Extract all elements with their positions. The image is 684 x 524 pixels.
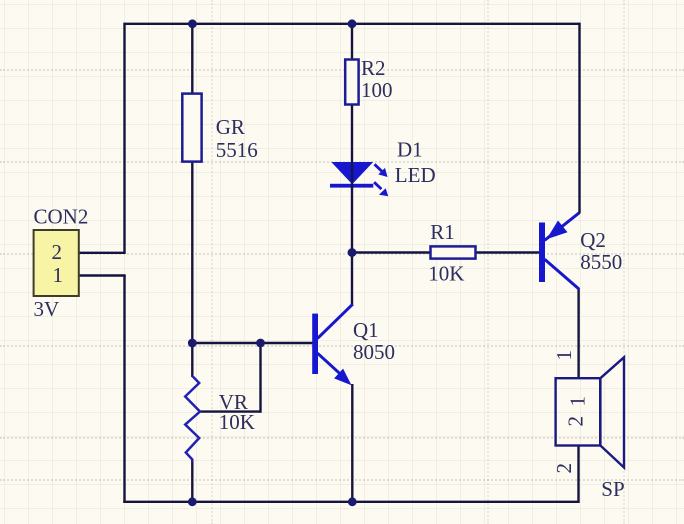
wire speaker pin 2 to bottom rail: [577, 445, 579, 503]
wire Q2 collector to speaker pin 1: [577, 289, 579, 379]
transistor Q2 emitter arrowhead: [547, 221, 568, 240]
svg-text:10K: 10K: [219, 410, 255, 434]
junction node bottom rail / VR: [188, 497, 197, 506]
wire through LED: [351, 162, 353, 188]
LED D1 light arrow 2 head: [379, 188, 388, 196]
transistor Q2 collector diagonal: [545, 259, 580, 289]
transistor Q1 collector diagonal: [318, 304, 353, 338]
speaker SP horn: [600, 357, 624, 467]
svg-text:2: 2: [552, 463, 576, 474]
svg-text:1: 1: [552, 350, 576, 361]
junction node top rail / R2: [348, 19, 357, 28]
svg-text:1: 1: [53, 263, 64, 287]
wire R2 top: [351, 24, 353, 61]
transistor Q2 emitter diagonal: [545, 213, 580, 241]
wire base line y343: [192, 342, 312, 344]
wire GR column bottom: [191, 161, 193, 343]
svg-text:2: 2: [52, 240, 63, 264]
wire top rail: [125, 23, 580, 25]
svg-text:D1: D1: [397, 137, 423, 161]
svg-text:10K: 10K: [428, 262, 464, 286]
svg-text:Q2: Q2: [580, 228, 606, 252]
wire VR bottom: [191, 460, 193, 502]
svg-text:1: 1: [566, 396, 590, 407]
LED D1 triangle: [331, 162, 373, 184]
svg-text:CON2: CON2: [34, 205, 89, 229]
junction node bottom rail / Q1 emitter: [348, 497, 357, 506]
junction node top rail / GR: [188, 19, 197, 28]
wire VR wiper vertical: [259, 343, 261, 413]
LED D1 light arrow 1 shaft: [375, 164, 382, 171]
wire VR top feed: [191, 343, 193, 377]
wire LED to node: [351, 187, 353, 306]
svg-text:R1: R1: [430, 220, 455, 244]
svg-text:100: 100: [361, 78, 393, 102]
svg-text:SP: SP: [601, 477, 624, 501]
svg-text:LED: LED: [395, 163, 436, 187]
wire R2 to LED: [351, 104, 353, 163]
wire R1 to Q2 base: [476, 251, 540, 253]
resistor R2 body: [345, 60, 358, 105]
svg-text:8050: 8050: [353, 340, 395, 364]
transistor Q1 emitter arrowhead: [334, 369, 351, 386]
wire Q1 emitter down: [351, 384, 353, 502]
wire left rail upper (top rail to CON2 pin 2): [123, 23, 125, 253]
resistor R1 body: [431, 246, 476, 258]
speaker SP body rectangle: [556, 378, 601, 445]
wire VR wiper horizontal: [200, 410, 261, 412]
junction node GR / base line: [188, 339, 197, 348]
junction node LED / R1: [348, 248, 357, 257]
wire CON2 pin 2 stub: [79, 252, 126, 254]
svg-text:8550: 8550: [580, 250, 622, 274]
wire CON2 pin 1 stub: [79, 274, 126, 276]
wire right rail (top rail to Q2 emitter): [578, 23, 580, 214]
svg-text:R2: R2: [361, 56, 386, 80]
svg-text:5516: 5516: [216, 138, 258, 162]
svg-text:GR: GR: [216, 115, 245, 139]
LED D1 cathode bar: [330, 184, 373, 188]
wire bottom rail: [123, 501, 578, 503]
svg-text:2: 2: [564, 416, 588, 427]
LED D1 light arrow 2 shaft: [374, 182, 381, 189]
svg-text:3V: 3V: [34, 297, 60, 321]
wire left rail lower (CON2 pin 1 to bottom rail): [123, 276, 125, 504]
transistor Q1 emitter diagonal: [318, 353, 346, 378]
connector CON2 body: [34, 230, 79, 296]
transistor Q1 base bar: [312, 314, 318, 374]
wire GR column top: [191, 24, 193, 95]
wire node to R1: [352, 251, 431, 253]
potentiometer VR zigzag: [185, 376, 200, 462]
LED D1 light arrow 1 head: [378, 168, 387, 177]
svg-text:Q1: Q1: [353, 318, 379, 342]
transistor Q2 base bar: [539, 223, 545, 283]
junction node wiper / base line: [256, 339, 265, 348]
photoresistor GR body: [182, 94, 201, 162]
